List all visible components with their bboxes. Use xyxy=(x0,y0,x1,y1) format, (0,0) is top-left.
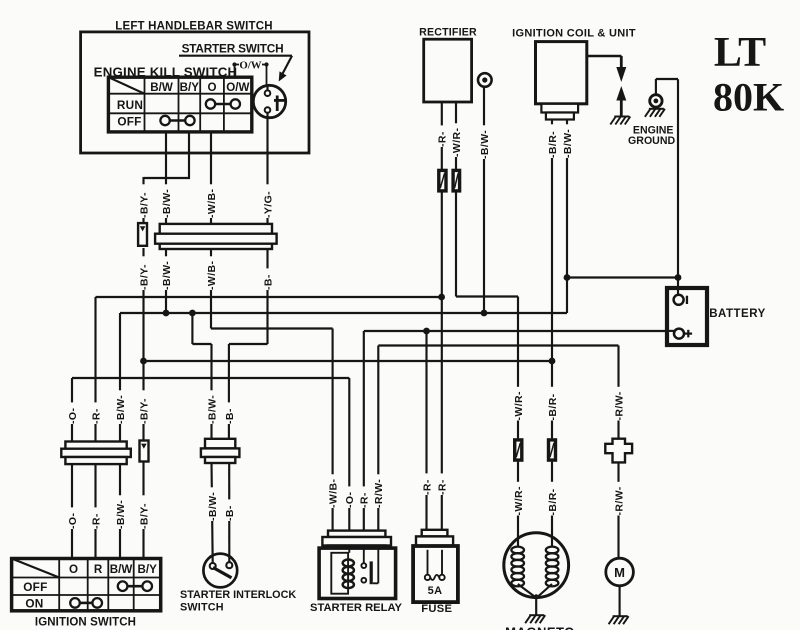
svg-text:-B/Y-: -B/Y- xyxy=(138,264,150,290)
wire label B/W below ignition coil xyxy=(561,124,574,158)
magneto ground wire xyxy=(535,596,537,615)
battery negative terminal xyxy=(674,295,684,305)
wire W/R down to connector xyxy=(517,297,519,439)
bullet connector W/R magneto xyxy=(515,440,522,460)
svg-text:OFF: OFF xyxy=(23,580,47,594)
wire label W/R below magneto connector xyxy=(512,482,525,516)
junction B/W coil to battery negative xyxy=(564,274,571,281)
svg-text:-B/Y-: -B/Y- xyxy=(138,503,150,529)
svg-text:BATTERY: BATTERY xyxy=(709,308,766,320)
svg-text:80K: 80K xyxy=(713,75,784,120)
battery positive terminal xyxy=(674,329,684,339)
svg-text:-B/W-: -B/W- xyxy=(161,189,173,218)
wire label B/W below ring terminal xyxy=(478,125,491,159)
svg-text:-R-: -R- xyxy=(359,492,371,508)
svg-text:FUSE: FUSE xyxy=(421,603,452,615)
svg-text:-B/W-: -B/W- xyxy=(479,130,491,159)
svg-text:-B-: -B- xyxy=(224,505,236,521)
wire O connector to ignition switch xyxy=(71,463,73,559)
svg-text:O: O xyxy=(69,563,78,576)
wire B/Y jog horizontal xyxy=(144,177,191,179)
wire R down to starter relay xyxy=(363,331,365,532)
starter switch label underline xyxy=(179,55,292,57)
svg-text:LT: LT xyxy=(714,30,766,76)
wire label R at fuse left xyxy=(420,473,433,495)
wire label B/W below ignition connector xyxy=(114,495,127,529)
ignition table diagonal xyxy=(12,559,60,578)
wire label B/Y above ignition connector xyxy=(137,390,150,424)
junction B/R to B/Y bus xyxy=(549,358,556,365)
svg-text:O/W: O/W xyxy=(239,60,261,72)
svg-text:-O-: -O- xyxy=(344,492,356,508)
wire B/R to magneto xyxy=(551,462,553,547)
svg-text:-R-: -R- xyxy=(421,479,433,495)
starter switch symbol xyxy=(253,85,285,117)
wire label R at starter relay xyxy=(357,486,370,508)
wire label B/Y above main connector xyxy=(137,184,150,218)
bus battery plus xyxy=(364,330,667,332)
svg-text:B/W: B/W xyxy=(110,563,133,576)
wire R/W down to starter relay xyxy=(377,346,379,533)
svg-text:-R-: -R- xyxy=(90,408,102,424)
svg-text:5A: 5A xyxy=(428,585,443,597)
spark plug lead down xyxy=(620,56,623,69)
wire B/W from kill switch to connector xyxy=(165,131,167,224)
ignition ON contacts xyxy=(79,602,93,605)
wire B down to interlock connector xyxy=(228,344,230,440)
svg-text:-B/R-: -B/R- xyxy=(547,131,559,158)
wire B to interlock switch xyxy=(228,462,230,563)
engine kill switch table xyxy=(108,77,251,132)
wire R/W down to joint connector xyxy=(617,346,619,439)
motor ground wire xyxy=(619,586,621,616)
svg-text:-R/W-: -R/W- xyxy=(613,391,625,420)
svg-text:-W/R-: -W/R- xyxy=(513,391,525,421)
junction R rectifier to R bus xyxy=(438,294,445,301)
svg-text:R: R xyxy=(94,563,103,576)
wire label B/W above interlock connector xyxy=(205,390,218,424)
svg-text:-R-: -R- xyxy=(437,479,449,495)
wire label B/W below main connector xyxy=(160,256,173,290)
wire B/W branch down to interlock connector xyxy=(210,344,212,440)
interlock lever xyxy=(213,568,232,578)
svg-text:-O-: -O- xyxy=(67,513,79,529)
wire label B/W below interlock connector xyxy=(206,487,219,521)
relay contacts xyxy=(363,548,365,563)
wire O down to starter relay xyxy=(348,378,350,532)
svg-text:-R-: -R- xyxy=(437,131,449,147)
relay coil xyxy=(343,560,354,567)
wire B horizontal to interlock xyxy=(229,343,268,345)
ground magneto xyxy=(529,614,544,616)
svg-text:GROUND: GROUND xyxy=(628,135,675,147)
fuse element xyxy=(425,575,430,580)
wire label B below interlock connector xyxy=(223,499,236,521)
fuse lead right xyxy=(441,550,443,575)
wire label B/Y below main connector xyxy=(137,256,150,290)
O/W bracket left stub xyxy=(235,64,240,66)
wire label B/Y below ignition connector xyxy=(137,495,150,529)
svg-text:IGNITION SWITCH: IGNITION SWITCH xyxy=(35,617,136,629)
svg-text:LEFT HANDLEBAR SWITCH: LEFT HANDLEBAR SWITCH xyxy=(115,21,273,33)
svg-text:STARTER SWITCH: STARTER SWITCH xyxy=(182,41,284,55)
wire label B/R below magneto connector xyxy=(546,482,559,516)
fuse box xyxy=(413,546,458,602)
wire Y/G from starter switch to connector xyxy=(266,117,268,225)
junction B/W kill switch to ground bus xyxy=(163,310,170,317)
svg-text:-B/W-: -B/W- xyxy=(206,395,218,424)
ignition coil and unit box xyxy=(536,42,587,104)
wire W/B down to starter relay xyxy=(332,329,334,533)
svg-text:B/Y: B/Y xyxy=(138,563,158,576)
bus R/W starter motor xyxy=(378,344,618,346)
inline connector B/Y ignition xyxy=(140,441,149,462)
svg-text:SWITCH: SWITCH xyxy=(180,602,224,614)
wire label R above ignition connector xyxy=(89,402,102,424)
wire B/W bus to battery negative xyxy=(567,276,678,278)
O/W bracket left drop to table xyxy=(234,64,236,79)
svg-text:B/Y: B/Y xyxy=(180,81,200,94)
ring terminal B/W xyxy=(478,73,492,87)
svg-text:-B-: -B- xyxy=(224,408,236,424)
ring terminal engine ground xyxy=(650,95,662,107)
O/W bracket right stub xyxy=(262,64,267,66)
wire B/W branch to interlock xyxy=(191,313,193,344)
svg-text:M: M xyxy=(614,565,625,580)
bullet connector R xyxy=(439,170,446,191)
svg-text:-B/R-: -B/R- xyxy=(547,488,559,515)
O/W bracket right drop to switch xyxy=(266,64,268,87)
svg-text:-B/W-: -B/W- xyxy=(115,500,127,529)
inline connector B/Y xyxy=(138,223,147,246)
starter relay box xyxy=(319,548,396,598)
svg-text:-B/W-: -B/W- xyxy=(161,261,173,290)
svg-text:O/W: O/W xyxy=(226,81,249,94)
magneto circle xyxy=(504,533,569,598)
relay coil compartment xyxy=(331,553,348,594)
connector fuse holder xyxy=(422,530,448,537)
wire label B/W above main connector xyxy=(160,184,173,218)
wire label O below ignition connector xyxy=(66,507,79,529)
junction B/W rectifier ring terminal to ground bus xyxy=(481,310,488,317)
magneto coil right bottom lead xyxy=(538,584,552,597)
ground spark plug xyxy=(614,116,629,118)
battery xyxy=(667,288,707,345)
wire B/W ignition coil down to bus xyxy=(566,119,568,313)
svg-text:B/W: B/W xyxy=(150,81,173,94)
wire label W/B at starter relay xyxy=(326,474,339,508)
bus B/Y-B/R (line D) xyxy=(144,360,553,362)
connector 2-way interlock xyxy=(205,439,235,449)
svg-text:RUN: RUN xyxy=(117,98,143,112)
left handlebar switch box xyxy=(81,32,309,153)
svg-text:-B/R-: -B/R- xyxy=(547,393,559,420)
wire W/B down xyxy=(210,248,212,329)
wire B/W down to ignition connector xyxy=(119,313,121,443)
svg-text:-Y/G-: -Y/G- xyxy=(262,191,274,218)
svg-text:O: O xyxy=(207,81,216,94)
wire R/W connector to motor xyxy=(617,462,619,559)
wire B/R coil to connector xyxy=(551,119,553,438)
svg-text:MAGNETO: MAGNETO xyxy=(505,625,575,630)
wire R connector to ignition switch xyxy=(94,463,96,559)
svg-text:STARTER INTERLOCK: STARTER INTERLOCK xyxy=(180,589,296,601)
wire label R/W above starter motor xyxy=(612,482,625,516)
wire O down to ignition connector xyxy=(71,378,73,443)
starter motor M xyxy=(606,558,634,586)
svg-text:-W/R-: -W/R- xyxy=(513,486,525,516)
wire B/W branch horizontal xyxy=(192,343,211,345)
ground engine xyxy=(649,108,664,110)
arrow to starter switch xyxy=(282,56,292,76)
wire label Y/G above main connector xyxy=(261,184,274,218)
wire label R below rectifier xyxy=(435,125,448,147)
wire W/B horizontal run xyxy=(211,327,333,329)
kill switch OFF contacts xyxy=(169,119,185,122)
wire label O at starter relay xyxy=(343,486,356,508)
bus R (line A) xyxy=(96,296,442,298)
bullet connector B/R magneto xyxy=(549,440,556,460)
svg-text:OFF: OFF xyxy=(117,115,141,129)
svg-text:RECTIFIER: RECTIFIER xyxy=(419,27,477,39)
wire label R/W above joint connector xyxy=(612,387,625,421)
wire B/W to interlock switch xyxy=(212,462,213,564)
wire label W/B below main connector xyxy=(205,256,218,290)
table diagonal xyxy=(108,77,144,94)
wire B/W rectifier ring terminal to ground bus xyxy=(483,87,485,314)
wire label W/R below rectifier xyxy=(450,123,463,157)
wire B/Y from kill switch (jog) xyxy=(188,131,190,179)
wire B/W connector to ground bus xyxy=(165,248,167,313)
spark plug gap symbol xyxy=(616,67,626,82)
svg-text:ON: ON xyxy=(25,597,43,611)
bullet connector W/R xyxy=(453,170,460,191)
wire label B above interlock connector xyxy=(223,402,236,424)
battery negative lead stub xyxy=(677,288,679,295)
wire W/R to magneto xyxy=(517,462,519,547)
wire W/R rectifier down xyxy=(455,102,457,297)
wire label B/W above ignition connector xyxy=(114,390,127,424)
wire B/Y connector to ignition switch xyxy=(142,461,144,559)
wire B/W connector to ignition switch xyxy=(119,463,121,559)
wire label R at fuse right xyxy=(435,473,448,495)
svg-text:-W/B-: -W/B- xyxy=(206,188,218,218)
wire B/Y down to inline connector xyxy=(142,177,144,224)
magneto coil left bottom lead xyxy=(518,584,535,597)
svg-text:STARTER RELAY: STARTER RELAY xyxy=(310,602,403,614)
wire coil to spark plug xyxy=(585,55,622,58)
connector 4-way starter relay xyxy=(328,531,385,537)
svg-text:-B/W-: -B/W- xyxy=(207,492,219,521)
svg-text:-R/W-: -R/W- xyxy=(613,486,625,515)
ground starter motor xyxy=(613,615,628,617)
wire label B/R below ignition coil xyxy=(546,124,559,158)
wire label R/W at starter relay xyxy=(372,474,385,508)
magneto coil left xyxy=(511,547,524,554)
svg-text:-W/B-: -W/B- xyxy=(206,260,218,290)
svg-text:-B/Y-: -B/Y- xyxy=(138,398,150,424)
svg-text:-O-: -O- xyxy=(67,408,79,424)
bus O (line E) xyxy=(72,377,349,379)
wire engine ground to battery top xyxy=(677,79,679,289)
svg-text:IGNITION COIL & UNIT: IGNITION COIL & UNIT xyxy=(512,28,636,40)
wire label R below ignition connector xyxy=(89,507,102,529)
starter switch top pin stub xyxy=(266,86,268,91)
wire B/Y connector to ignition switch xyxy=(142,248,144,442)
junction B/W interlock branch xyxy=(189,310,196,317)
battery positive lead stub xyxy=(667,330,674,332)
joint connector R/W xyxy=(605,439,632,463)
wire B down xyxy=(266,248,268,344)
kill switch RUN contacts xyxy=(215,103,231,106)
wire label B/R above magneto connector xyxy=(546,387,559,421)
fuse lead left xyxy=(427,550,429,575)
wire engine ground ring up xyxy=(655,79,657,95)
svg-text:-W/B-: -W/B- xyxy=(328,478,340,508)
wire engine ground horizontal xyxy=(656,78,678,80)
ignition switch table xyxy=(12,559,161,611)
svg-text:-B/W-: -B/W- xyxy=(115,395,127,424)
junction R fuse to battery bus xyxy=(423,328,430,335)
wire W/R horizontal jog xyxy=(456,295,518,297)
wire R battery bus to fuse xyxy=(425,331,427,531)
wire R down to ignition connector xyxy=(94,297,96,443)
ignition OFF contacts xyxy=(127,585,143,588)
svg-text:-R-: -R- xyxy=(90,513,102,529)
svg-text:-B-: -B- xyxy=(262,274,274,290)
rectifier box xyxy=(424,39,472,102)
starter interlock switch symbol xyxy=(203,554,237,588)
wire label B below main connector xyxy=(261,268,274,290)
connector 4-way handlebar harness xyxy=(160,224,272,234)
magneto coil right xyxy=(546,547,559,554)
junction B/Y to B/R bus xyxy=(140,358,147,365)
svg-text:-R/W-: -R/W- xyxy=(373,479,385,508)
starter switch bottom pin stub xyxy=(266,113,268,118)
wire label W/R above magneto connector xyxy=(512,387,525,421)
svg-text:-B/Y-: -B/Y- xyxy=(138,192,150,218)
connector 3-way ignition switch xyxy=(65,442,126,449)
bus B/W ground (line B) xyxy=(120,312,567,314)
svg-text:-B/W-: -B/W- xyxy=(562,129,574,158)
wire R rectifier to fuse xyxy=(441,102,443,531)
wire label W/B above main connector xyxy=(205,184,218,218)
junction battery negative to engine ground xyxy=(675,274,682,281)
wire W/B (O column) to connector xyxy=(210,131,212,224)
svg-text:-W/R-: -W/R- xyxy=(451,127,463,157)
wire label O above ignition connector xyxy=(66,402,79,424)
